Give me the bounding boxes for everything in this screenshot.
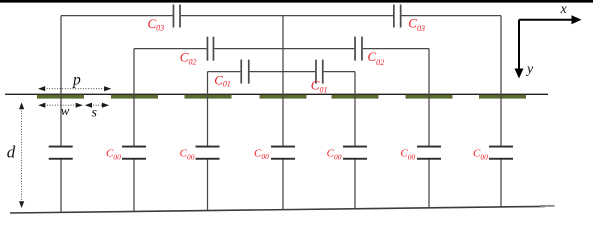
svg-text:y: y (525, 62, 534, 77)
svg-text:x: x (560, 2, 568, 17)
svg-text:d: d (7, 143, 16, 162)
svg-text:w: w (61, 103, 70, 118)
svg-text:s: s (92, 106, 98, 121)
svg-text:p: p (72, 72, 81, 89)
